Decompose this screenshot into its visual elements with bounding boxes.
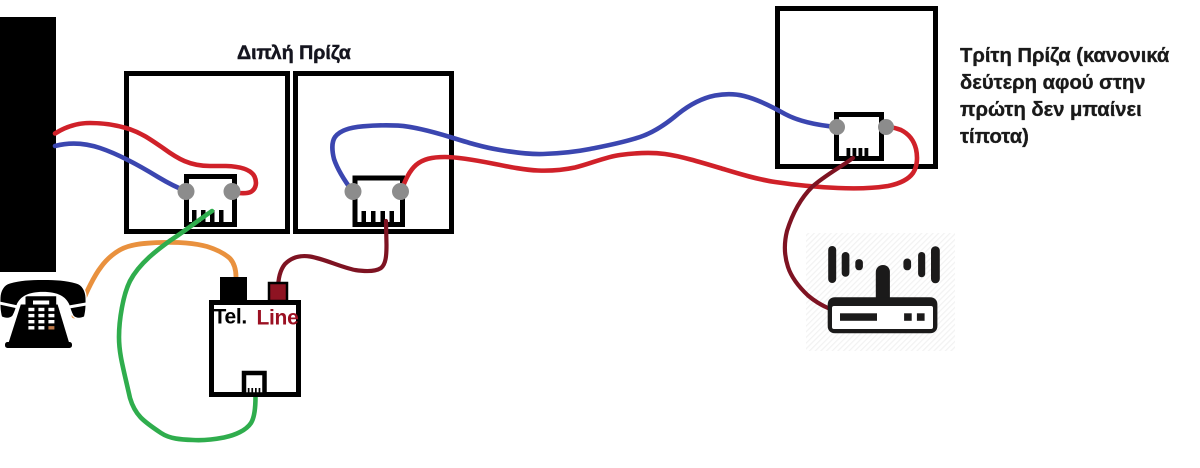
telephone icon [0,280,89,348]
wire red from wall to J1 right contact [55,123,256,193]
wire orange from telephone to splitter Tel plug [74,242,236,316]
svg-text:τίποτα): τίποτα) [960,126,1029,148]
socket box 2 (right of Διπλή Πρίζα) [296,74,452,232]
router icon [828,246,940,333]
svg-text:Τρίτη Πρίζα (κανονικά: Τρίτη Πρίζα (κανονικά [960,45,1170,67]
router antenna [876,265,890,300]
wire dark-red from J3 to router [785,158,853,309]
router signal bar right dot [903,259,911,271]
router front square 1 [904,313,912,321]
router front bar [840,313,877,321]
svg-text:δεύτερη αφού στην: δεύτερη αφού στην [960,72,1146,94]
svg-text:πρώτη δεν μπαίνει: πρώτη δεν μπαίνει [960,99,1142,121]
contact dot J3 right [878,119,894,135]
splitter box [212,277,299,395]
phone base [5,342,72,348]
router signal bar right medium [918,252,925,277]
wall cable entry (black rectangle) [0,17,56,272]
splitter bottom jack [244,373,265,395]
router signal bar left tall [828,246,836,283]
router signal bar left dot [855,259,863,270]
watermark hatch behind router [806,233,955,351]
RJ11 jack J2 in box 2 [355,178,403,225]
router front square 2 [917,313,925,321]
RJ11 jack J1 in box 1 [187,177,235,225]
router body [828,297,938,333]
phone keypad [28,308,54,330]
contact dot J2 right [392,183,409,200]
splitter Line plug [269,283,287,301]
svg-text:Διπλή Πρίζα: Διπλή Πρίζα [237,42,351,64]
router signal bar right tall [931,246,940,283]
svg-text:Tel.: Tel. [214,306,247,329]
RJ11 jack J3 in box 3 [837,115,882,160]
contact dot J3 left [829,119,845,135]
wire green from J1 to splitter bottom jack [119,211,256,440]
contact dot J1 right [224,183,241,200]
router signal bar left medium [842,252,850,277]
svg-text:Line: Line [257,307,299,330]
wire dark-red from J2 to splitter Line plug [278,221,387,290]
wire blue from wall to J1 left contact [55,144,186,191]
phone cradle posts [26,296,57,305]
contact dot J1 left [178,183,195,200]
socket box 3 (Τρίτη Πρίζα) [778,9,936,167]
contact dot J2 left [345,183,362,200]
phone cradle white notch [0,303,17,307]
socket box 1 (left of Διπλή Πρίζα) [127,74,288,232]
wire red from J2 to J3 right contact (with loop) [401,127,917,191]
splitter Tel plug [220,277,247,302]
wire blue from J2 to J3 left contact [332,94,837,192]
phone handset [0,280,85,318]
phone body trapezoid [9,305,70,344]
